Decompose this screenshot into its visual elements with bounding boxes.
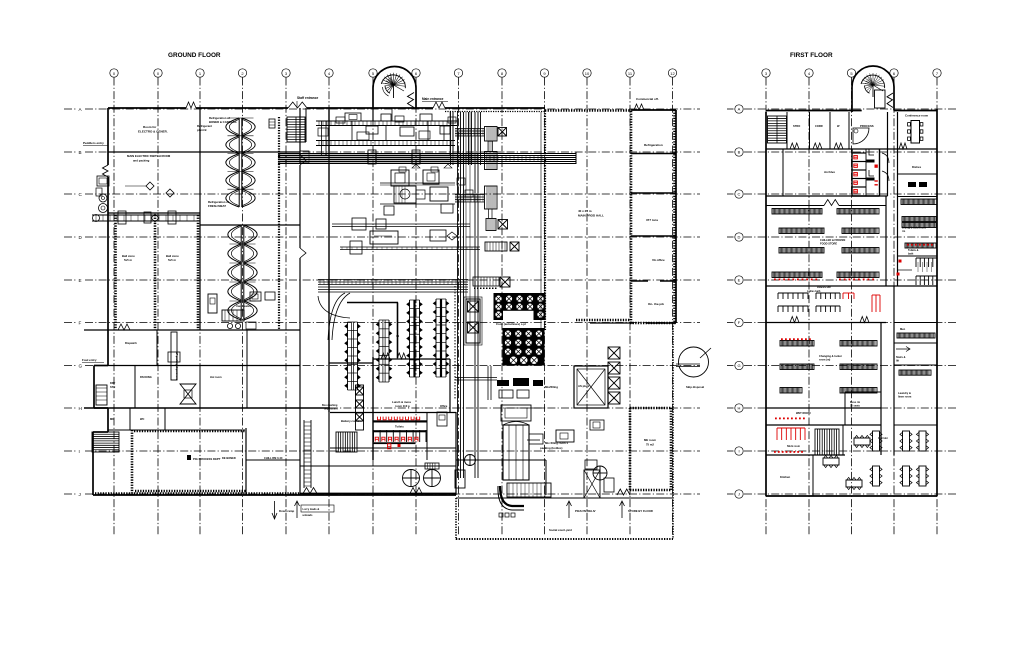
svg-text:PIGS FM DELIV: PIGS FM DELIV: [575, 509, 596, 513]
fish tables: [347, 322, 349, 390]
cold store insulated walls (ball stores): [114, 215, 117, 330]
central cluster hatched parts: [399, 167, 406, 172]
refrigeration room 1 walls: [200, 151, 300, 153]
right machine unit 2 on spine: [485, 152, 498, 170]
refrigeration coil stack 2: [240, 225, 242, 320]
svg-text:AS plant: AS plant: [578, 384, 589, 388]
central machines cluster: [391, 170, 409, 186]
main entrance door: [433, 102, 445, 108]
conveyor vertical link: [321, 121, 323, 156]
storage rack rows: [772, 209, 822, 215]
room for electro room walls: [108, 151, 200, 153]
svg-text:linen room: linen room: [898, 395, 912, 399]
grid column 5 (first floor): [847, 69, 855, 77]
svg-text:I: I: [79, 449, 80, 454]
svg-text:Staff entrance: Staff entrance: [297, 96, 318, 100]
grid line B (ground): [64, 151, 77, 153]
red dash row storage: [774, 279, 776, 281]
horizontal band at E: [318, 279, 468, 281]
svg-text:75 m2: 75 m2: [646, 443, 654, 447]
down ramp label: [274, 501, 276, 518]
top conveyor line 1: [316, 120, 457, 122]
svg-text:Room for: Room for: [143, 125, 157, 129]
filling machines cluster: [497, 380, 509, 386]
svg-text:Foul entry: Foul entry: [82, 358, 97, 362]
small machines mixing area: [556, 430, 574, 442]
toilet block first floor: [851, 149, 853, 196]
left wall lower: [107, 330, 109, 366]
wash room wall: [300, 465, 456, 467]
grid column 4 (first floor): [805, 69, 813, 77]
svg-text:Stick room: Stick room: [787, 445, 801, 448]
grid column 12 (ground): [668, 69, 676, 77]
grid column 6 (first floor): [890, 69, 898, 77]
main spine conveyor: [278, 153, 576, 155]
stairs bottom left: [92, 432, 119, 452]
svg-text:room (m): room (m): [819, 358, 830, 362]
right wing door to outside: [634, 104, 644, 110]
grid line F (first floor): [727, 322, 734, 324]
svg-text:MD: MD: [110, 417, 114, 421]
grid line J (ground): [64, 493, 77, 495]
spiral stair tower (ground): [372, 88, 374, 108]
wall at line F: [84, 329, 300, 331]
tower stair landing (first): [875, 90, 886, 108]
small vent box: [269, 119, 275, 128]
svg-text:VA office: VA office: [652, 258, 665, 262]
tank side pipes: [527, 407, 545, 409]
E band end machine: [473, 277, 499, 286]
packing room walls: [134, 366, 136, 409]
dining tables: [854, 438, 870, 445]
svg-text:Dispatch: Dispatch: [125, 341, 137, 345]
grid column 9 (ground): [540, 69, 548, 77]
svg-text:department: department: [324, 408, 338, 411]
right wing room walls: [631, 153, 676, 155]
top conveyor line 2: [316, 140, 455, 142]
grid column 2 (ground): [238, 69, 246, 77]
AS plant big square: [574, 366, 608, 408]
door to annex: [617, 489, 630, 495]
svg-text:GROUND FLOOR: GROUND FLOOR: [168, 52, 221, 59]
svg-text:H: H: [79, 406, 82, 411]
corridor walls first floor: [887, 112, 889, 196]
svg-text:plant B: plant B: [197, 128, 206, 132]
right connector band A: [455, 128, 484, 130]
unit link hatch 3: [488, 209, 490, 218]
svg-text:FIRST FLOOR: FIRST FLOOR: [790, 52, 833, 59]
unit link hatch 1: [487, 141, 489, 152]
lower mid conveyor: [332, 223, 470, 225]
svg-text:Refrigeration: Refrigeration: [644, 143, 663, 147]
right col racks: [901, 199, 937, 205]
svg-text:WC: WC: [140, 417, 144, 421]
left conveyor line: [92, 214, 200, 216]
grid column 11 (ground): [626, 69, 634, 77]
vertical conveyor bundle: [457, 112, 459, 478]
red toilet stalls: [373, 430, 427, 432]
svg-text:CHILL RM 0-4C: CHILL RM 0-4C: [264, 456, 283, 460]
hall inner line: [540, 112, 542, 330]
svg-text:Commercial off.: Commercial off.: [636, 97, 659, 101]
svg-text:Down ramp: Down ramp: [279, 509, 295, 513]
spiral stair tower (first): [851, 87, 853, 112]
svg-text:FOOD STORE: FOOD STORE: [820, 242, 837, 246]
first floor stairs top-left: [768, 116, 787, 143]
svg-text:MAIN ELECTRIC SWITCH ROOM: MAIN ELECTRIC SWITCH ROOM: [127, 154, 171, 158]
grid line A (first floor): [727, 108, 734, 110]
svg-text:BONED & CARCASS: BONED & CARCASS: [209, 120, 237, 124]
svg-text:Office: Office: [440, 404, 448, 408]
wall at H: [84, 407, 330, 409]
right toilet stalls: [916, 257, 937, 259]
grid line D (first floor): [727, 236, 734, 238]
svg-text:Social court-yard: Social court-yard: [549, 528, 572, 532]
process door arc: [853, 128, 869, 144]
right connector band B: [455, 194, 484, 196]
svg-text:20 seats: 20 seats: [850, 405, 860, 408]
svg-text:unloads: unloads: [303, 513, 314, 517]
right wing outer walls: [631, 109, 676, 111]
svg-text:Kitchen: Kitchen: [780, 475, 791, 479]
grid column 0 (ground): [110, 69, 118, 77]
storage hall north wall: [766, 205, 824, 207]
grid line G (first floor): [727, 365, 734, 367]
corridor lower: [880, 323, 882, 456]
tower door zigzag (first): [887, 93, 893, 108]
top wall inner dotted strip: [445, 111, 545, 113]
svg-text:Laundry &: Laundry &: [898, 391, 911, 395]
svg-text:D: D: [738, 235, 741, 240]
ground floor outer wall - top: [108, 107, 186, 109]
grid line F (ground): [64, 322, 77, 324]
ground outer wall - bottom: [93, 494, 456, 496]
stairs mid bottom: [336, 432, 357, 452]
grid column 3 (ground): [282, 69, 290, 77]
grid line G (ground): [64, 365, 77, 367]
grid column 7 (ground): [454, 69, 462, 77]
svg-text:14: 14: [396, 334, 400, 338]
cook tank grid 2 (black block, white tanks): [503, 328, 545, 366]
svg-text:FRESH MEAT: FRESH MEAT: [208, 204, 226, 208]
svg-text:B: B: [738, 150, 741, 155]
svg-text:User creation: User creation: [236, 305, 252, 308]
xbox column right: [608, 347, 620, 359]
right col toilets: [905, 243, 936, 248]
right column rooms mid: [894, 322, 937, 324]
svg-text:LP packing department: LP packing department: [175, 352, 178, 380]
grid line A (ground): [64, 108, 77, 110]
hourglass machine: [180, 384, 196, 404]
laundry room: [899, 370, 931, 375]
conveyor hanging machines: [345, 113, 361, 121]
wall right section: [590, 322, 631, 324]
svg-text:Peddlers entry: Peddlers entry: [83, 141, 104, 145]
svg-text:ME room: ME room: [644, 438, 656, 442]
svg-text:STORE BY FLOOR: STORE BY FLOOR: [628, 509, 653, 513]
process dept insulated walls: [131, 430, 134, 493]
annex dashed yard: [455, 498, 457, 540]
svg-text:H: H: [738, 406, 741, 411]
svg-text:room 110 p: room 110 p: [395, 404, 410, 408]
svg-text:PIG PROCESS DEPT: PIG PROCESS DEPT: [193, 457, 221, 461]
svg-text:DRY: DRY: [110, 381, 116, 385]
svg-text:packing (bottles): packing (bottles): [540, 446, 562, 450]
svg-text:G: G: [737, 363, 740, 368]
svg-text:E: E: [79, 278, 82, 283]
spine small blocks: [368, 150, 376, 164]
svg-text:bath: bath: [908, 252, 914, 255]
ground outer wall - left: [107, 108, 109, 165]
curved conveyor: [328, 293, 345, 340]
svg-text:PROCESS: PROCESS: [860, 124, 874, 128]
x frame column: [356, 385, 364, 430]
lower machine cluster 2: [370, 231, 398, 244]
waste disposal circle: [679, 347, 709, 377]
svg-text:Hot room: Hot room: [210, 375, 222, 379]
right machine unit 4: [486, 219, 496, 231]
svg-text:A: A: [738, 107, 741, 112]
grid column 1 (ground): [196, 69, 204, 77]
right machine unit 5: [485, 242, 507, 251]
svg-text:I: I: [738, 449, 739, 454]
main electric switch room: [108, 212, 200, 214]
svg-text:lift: lift: [896, 359, 899, 362]
insulated divider wall: [278, 117, 280, 330]
svg-text:5x5 m: 5x5 m: [168, 258, 176, 262]
door notch top wall: [186, 102, 196, 108]
svg-text:J: J: [738, 492, 740, 497]
svg-text:ELECTRO & GENER.: ELECTRO & GENER.: [138, 130, 168, 134]
svg-text:Drying & bakehouse: Drying & bakehouse: [902, 227, 927, 230]
lunch room block walls: [329, 362, 373, 364]
wall x373 top stub: [372, 108, 374, 121]
right machine unit 1: [485, 127, 498, 142]
user cleaning machine cluster: [208, 294, 217, 313]
mess room small: [845, 391, 881, 393]
svg-text:and packing: and packing: [133, 159, 150, 163]
xframe column left of tanks: [466, 299, 480, 343]
washing machine row: [96, 385, 107, 405]
grid column 0 (ground): [154, 69, 162, 77]
wall below toilets right: [898, 285, 938, 287]
grid line B (first floor): [727, 151, 734, 153]
electric room diamonds: [146, 182, 154, 190]
pipe elbow duct: [500, 486, 524, 506]
grid column 3 (first floor): [762, 69, 770, 77]
wall F first floor: [766, 322, 886, 324]
first floor outer walls: [766, 110, 862, 112]
chill rooms walls: [299, 366, 301, 496]
svg-text:Conference room: Conference room: [905, 114, 929, 118]
insulated cold room 14C: [630, 407, 671, 410]
grid line C (ground): [64, 193, 77, 195]
conveyor extra blocks: [336, 117, 345, 123]
toilet block walls: [330, 412, 456, 414]
svg-text:Changing & locker: Changing & locker: [819, 354, 842, 358]
small offices below H: [129, 408, 131, 430]
refrigeration coil stack 1: [238, 118, 240, 207]
grid column 10 (ground): [583, 69, 591, 77]
right machine unit 3: [485, 186, 498, 209]
svg-text:12: 12: [670, 71, 675, 76]
big vertical tank: [503, 425, 529, 480]
big hall insulated right wall: [630, 322, 676, 325]
grid line J (first floor): [727, 493, 734, 495]
svg-text:10: 10: [585, 71, 590, 76]
kitchen: [766, 454, 845, 456]
insulated wall top of big hall: [545, 109, 631, 112]
grid line E (ground): [64, 279, 77, 281]
top small rooms: [766, 148, 937, 150]
grid line D (ground): [64, 236, 77, 238]
stair hatch top (staff stairs): [287, 117, 305, 142]
dispatch rooms: [108, 365, 300, 367]
changing room racks: [780, 341, 814, 347]
svg-text:t: t: [373, 148, 374, 152]
svg-text:Main entrance: Main entrance: [422, 97, 444, 101]
svg-text:STRO: STRO: [793, 124, 800, 128]
hall wall L: [347, 302, 398, 304]
svg-text:On- the-job: On- the-job: [648, 302, 664, 306]
svg-text:5x5 m: 5x5 m: [124, 258, 132, 262]
process dept label: [187, 455, 191, 460]
svg-text:Dishes: Dishes: [912, 165, 922, 169]
svg-text:STO: STO: [110, 385, 115, 389]
storage hall walls: [766, 285, 937, 287]
main hall west wall: [328, 108, 330, 412]
big hall bottom hatched wall: [576, 319, 630, 322]
svg-text:B: B: [79, 150, 82, 155]
grid column 5 (ground): [369, 69, 377, 77]
svg-text:DE BONED: DE BONED: [222, 456, 236, 460]
annex labels and arrows: [568, 502, 570, 518]
grid column 6 (ground): [412, 69, 420, 77]
svg-text:WET ROOM: WET ROOM: [796, 411, 811, 415]
bottom right lift frame: [584, 470, 600, 498]
tower door zigzag (ground): [408, 93, 415, 108]
svg-text:CORR: CORR: [815, 124, 823, 128]
toilet wall bar with red hooks: [373, 420, 427, 422]
washing small grid: [425, 463, 439, 469]
svg-text:Archive: Archive: [824, 170, 835, 174]
cook tank grid 1 (black block, white tanks): [494, 293, 546, 320]
pump cluster on left wall: [97, 176, 109, 186]
right rooms dishes: [898, 173, 938, 175]
archive room: [766, 195, 888, 197]
lorry label: [296, 502, 298, 518]
box washing ladder conveyor: [303, 420, 305, 488]
grid line E (first floor): [727, 279, 734, 281]
svg-text:F: F: [79, 321, 82, 326]
svg-text:MAIN PROD HALL: MAIN PROD HALL: [578, 214, 604, 218]
mixer above tank: [501, 405, 531, 421]
svg-text:CHILLED & FROZEN: CHILLED & FROZEN: [820, 238, 845, 242]
wet room: [766, 407, 881, 409]
refrigeration room 2 walls: [200, 224, 300, 226]
svg-text:Skip disposal: Skip disposal: [686, 385, 704, 389]
svg-text:C: C: [738, 192, 741, 197]
LP packing machine: [171, 332, 177, 380]
svg-text:Mix/filling: Mix/filling: [545, 385, 558, 389]
svg-text:E: E: [738, 278, 741, 283]
staff entrance door: [288, 102, 307, 108]
grid line C (first floor): [727, 193, 734, 195]
stick room red lockers: [766, 424, 881, 426]
stairs first floor lower: [815, 429, 839, 455]
grid line I (ground): [64, 450, 77, 452]
grid line H (ground): [64, 407, 77, 409]
svg-text:40 x 20 m: 40 x 20 m: [578, 209, 592, 213]
grid line I (first floor): [727, 450, 734, 452]
grid line H (first floor): [727, 407, 734, 409]
grid column 7 (first floor): [933, 69, 941, 77]
bottom center walls: [455, 412, 457, 495]
grid column 4 (ground): [325, 69, 333, 77]
svg-text:Men: Men: [900, 327, 906, 331]
svg-text:PACKING: PACKING: [140, 375, 152, 379]
svg-text:377 tons: 377 tons: [646, 218, 659, 222]
svg-text:G: G: [79, 364, 83, 369]
bottom conveyor machine: [507, 483, 551, 497]
svg-text:DRESS RM: DRESS RM: [817, 285, 831, 289]
svg-text:Toilets: Toilets: [395, 425, 404, 429]
svg-text:J: J: [79, 492, 81, 497]
grid column 8 (ground): [498, 69, 506, 77]
bottom wall hatched part: [95, 492, 300, 495]
svg-text:Cook (autoclaves) s.pl: Cook (autoclaves) s.pl: [496, 322, 526, 326]
svg-text:Lorry loads &: Lorry loads &: [303, 507, 320, 511]
